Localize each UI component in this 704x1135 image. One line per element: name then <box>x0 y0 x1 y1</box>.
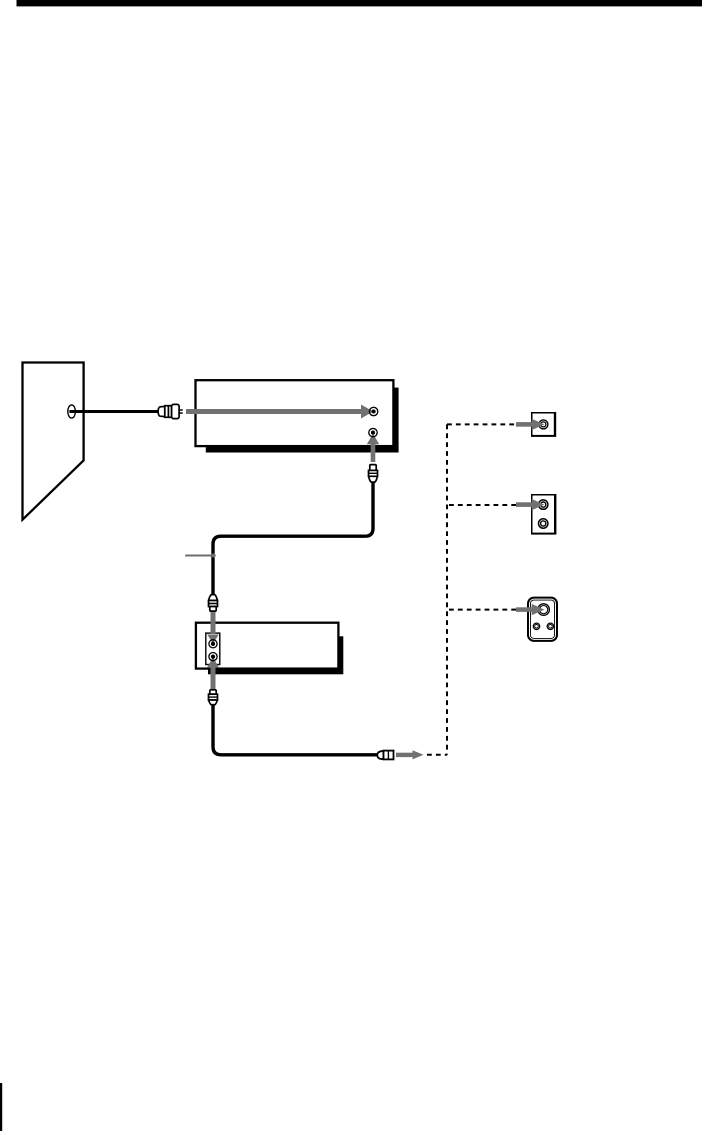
gray arrow into VCR IN jack <box>186 405 373 419</box>
TV box C big jack <box>538 604 550 616</box>
dashed branch to TV box B <box>449 504 517 506</box>
TV box B (VHF/UHF) <box>531 494 556 535</box>
RCA plug above cable box (tip down) <box>209 595 218 611</box>
gray arrow into TV box B <box>516 499 544 510</box>
gray arrow up into cable box jack 2 <box>207 657 219 689</box>
dashed branch to TV box A <box>447 423 517 425</box>
cable box <box>196 623 339 669</box>
gray arrow into TV box C <box>516 604 544 615</box>
dashed branch to TV box C <box>449 609 517 611</box>
RCA plug below VCR (tip up) <box>369 465 378 483</box>
TV box C (round antenna terminal) <box>528 598 557 641</box>
gray arrow right at bottom cable end <box>396 750 424 759</box>
gray arrow into TV box A <box>516 419 544 430</box>
cable box jack 2 <box>209 653 217 661</box>
cable box shadow <box>208 636 343 674</box>
page edge tab (bottom left) <box>0 1083 2 1131</box>
TV box B jack 1 <box>539 500 548 509</box>
RCA plug below cable box (tip up) <box>209 690 218 705</box>
cable box jack panel <box>206 633 220 664</box>
VCR OUT jack <box>369 428 377 436</box>
VCR box <box>196 380 394 446</box>
dashed trunk vertical <box>446 424 448 754</box>
antenna cable from wall <box>69 410 158 413</box>
gray arrow up into VCR OUT jack <box>367 434 379 462</box>
TV box B jack 2 <box>539 519 548 528</box>
VCR box shadow <box>206 388 399 453</box>
cable from VCR OUT down to cable box <box>213 482 373 596</box>
wall panel <box>23 363 84 520</box>
leader line pointing at cable <box>185 555 214 557</box>
coax F-connector on antenna cable <box>158 404 183 418</box>
TV box A jack <box>539 420 548 429</box>
gray arrow down into cable box jack 1 <box>207 611 219 644</box>
TV box A (VHF only) <box>531 412 556 437</box>
cable from cable box down and right <box>213 704 378 755</box>
cable box jack 1 <box>209 640 217 648</box>
TV box C small jack left <box>533 623 539 629</box>
coax plug at bottom cable end (tip right) <box>377 751 393 760</box>
dashed segment at bottom <box>427 754 447 756</box>
VCR IN jack <box>369 407 377 415</box>
top header bar <box>17 0 703 6</box>
wall outlet <box>68 405 76 418</box>
TV box C small jack right <box>547 623 553 629</box>
